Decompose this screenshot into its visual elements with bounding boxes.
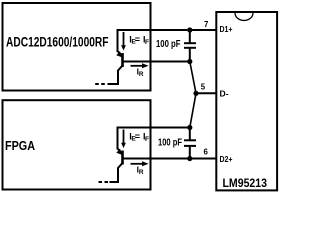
- wire dashed collector continuation Q2: [105, 181, 109, 183]
- svg-text:100 pF: 100 pF: [158, 137, 182, 148]
- svg-text:100 pF: 100 pF: [156, 39, 181, 50]
- wire diagonal C1 to D- node: [190, 62, 196, 94]
- transistor Q1 emitter arrow: [118, 51, 121, 54]
- node junction top wire / C1: [187, 27, 192, 32]
- svg-text:LM95213: LM95213: [223, 177, 268, 190]
- op-amp U1 LM95213 box: [216, 12, 277, 190]
- transistor Q2 base bar: [121, 151, 124, 165]
- wire emitter vertical Q1: [117, 29, 119, 52]
- svg-text:D2+: D2+: [220, 154, 233, 164]
- capacitor C1 100 pF: [189, 30, 191, 43]
- wire pin7 (top wire to D1+): [117, 29, 217, 31]
- arrow IR annotation Q1: [131, 65, 144, 67]
- transistor Q2 emitter arrow: [118, 149, 121, 152]
- wire Q2 emitter top wire: [117, 127, 190, 129]
- transistor Q2 collector: [110, 163, 123, 182]
- svg-text:7: 7: [204, 20, 208, 29]
- svg-text:6: 6: [204, 147, 209, 156]
- svg-text:ADC12D1600/1000RF: ADC12D1600/1000RF: [6, 35, 109, 50]
- wire diagonal C2 to D- node: [190, 93, 196, 127]
- wire pin5 (D-): [196, 92, 216, 94]
- svg-text:5: 5: [201, 82, 206, 91]
- node junction upper wire / C2: [187, 125, 192, 130]
- transistor Q1 base bar: [121, 53, 124, 67]
- node D- junction: [193, 91, 198, 96]
- node junction pin6 wire / C2: [187, 156, 192, 161]
- wire dashed collector continuation Q1: [101, 83, 105, 85]
- svg-text:D1+: D1+: [220, 24, 233, 34]
- wire emitter vertical Q2: [117, 127, 119, 150]
- svg-text:FPGA: FPGA: [5, 139, 35, 153]
- capacitor C2 100 pF: [189, 128, 191, 141]
- svg-text:D-: D-: [220, 88, 229, 98]
- wire Q2 base to pin6 (D2+): [123, 158, 217, 160]
- wire Q1 base to cap: [123, 61, 190, 63]
- notch: [235, 13, 253, 21]
- FPGA block box: [3, 100, 151, 189]
- arrow IE annotation Q2: [123, 130, 125, 144]
- transistor Q1 collector: [108, 66, 123, 85]
- arrow IE annotation Q1: [123, 32, 125, 46]
- arrow IR annotation Q2: [131, 163, 144, 165]
- node junction base wire / C1: [187, 59, 192, 64]
- ADC12D1600/1000RF block box: [3, 3, 151, 91]
